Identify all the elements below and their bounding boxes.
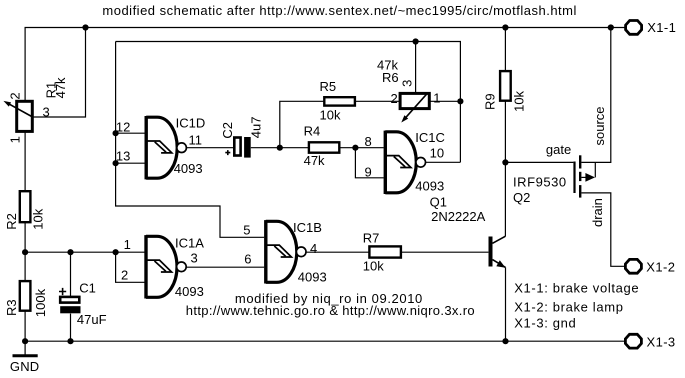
svg-text:C2: C2 [220,122,235,139]
svg-text:C1: C1 [79,280,96,295]
svg-text:gate: gate [546,142,571,157]
svg-text:2: 2 [391,91,398,106]
svg-text:3: 3 [43,105,50,120]
svg-text:IC1D: IC1D [176,116,206,131]
svg-text:4: 4 [310,241,317,256]
svg-text:10k: 10k [31,208,46,229]
svg-text:100k: 100k [33,288,48,317]
svg-text:10k: 10k [320,107,341,122]
svg-text:5: 5 [243,223,250,238]
svg-text:2N2222A: 2N2222A [431,209,486,224]
svg-text:4093: 4093 [415,179,444,194]
svg-text:4093: 4093 [175,284,204,299]
svg-text:3: 3 [400,80,415,87]
svg-text:IC1C: IC1C [415,130,445,145]
svg-text:1: 1 [124,237,131,252]
svg-text:X1-3: X1-3 [647,335,676,350]
svg-text:4093: 4093 [174,161,203,176]
svg-text:IRF9530: IRF9530 [513,175,567,190]
svg-text:11: 11 [189,132,203,147]
svg-text:8: 8 [365,134,372,149]
svg-text:1: 1 [433,90,440,105]
svg-text:10k: 10k [363,258,384,273]
svg-text:modified schematic after http:: modified schematic after http://www.sent… [102,3,577,18]
svg-text:R6: R6 [382,70,399,85]
svg-text:6: 6 [244,252,251,267]
svg-text:4u7: 4u7 [248,116,263,138]
svg-text:drain: drain [590,198,605,227]
svg-text:IC1A: IC1A [175,236,204,251]
svg-text:2: 2 [121,267,128,282]
svg-text:R9: R9 [483,93,498,110]
svg-text:X1-2: brake lamp: X1-2: brake lamp [514,300,623,315]
svg-text:R7: R7 [363,230,380,245]
svg-text:X1-3: gnd: X1-3: gnd [514,316,576,331]
svg-text:GND: GND [10,359,40,374]
svg-text:3: 3 [191,250,198,265]
svg-text:IC1B: IC1B [293,220,322,235]
svg-text:13: 13 [116,149,130,164]
svg-text:2: 2 [8,92,23,99]
svg-text:47k: 47k [304,153,325,168]
svg-text:X1-2: X1-2 [646,260,675,275]
svg-text:1: 1 [8,136,23,143]
svg-text:R4: R4 [304,123,321,138]
svg-text:4093: 4093 [298,270,327,285]
svg-text:R5: R5 [320,79,337,94]
svg-text:9: 9 [365,165,372,180]
svg-text:12: 12 [116,119,130,134]
svg-text:R2: R2 [4,213,19,230]
svg-text:10k: 10k [512,90,527,111]
svg-text:Q2: Q2 [513,190,530,205]
svg-text:X1-1: X1-1 [647,20,676,35]
svg-text:http://www.tehnic.go.ro & http: http://www.tehnic.go.ro & http://www.niq… [186,303,475,318]
svg-text:X1-1: brake voltage: X1-1: brake voltage [514,280,639,295]
svg-text:10: 10 [430,146,444,161]
svg-text:Q1: Q1 [430,195,447,210]
svg-text:47k: 47k [53,77,68,98]
svg-text:source: source [592,106,607,145]
svg-text:47uF: 47uF [77,312,107,327]
svg-text:R3: R3 [4,299,19,316]
